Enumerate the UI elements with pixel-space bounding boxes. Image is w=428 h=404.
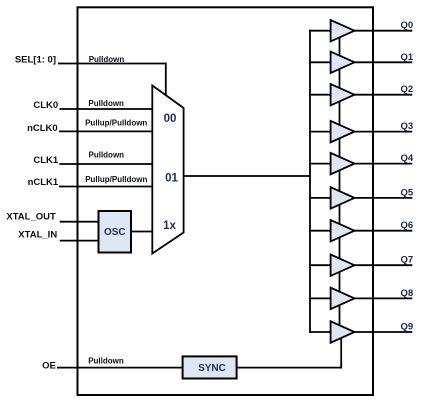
wire SEL horizontal <box>58 63 166 65</box>
wire XTAL_IN <box>60 240 99 242</box>
wire feed from bus to buffer Q2 <box>309 94 332 96</box>
svg-text:Q4: Q4 <box>401 153 414 164</box>
chip outline <box>78 7 374 395</box>
svg-text:Q0: Q0 <box>401 20 414 31</box>
wire riser to Q9 buffer <box>340 338 342 369</box>
buffer triangle Q6 <box>331 220 355 241</box>
buffer triangle Q0 <box>331 20 355 41</box>
wire output Q6 <box>355 230 413 232</box>
wire SEL vertical drop into mux select <box>165 63 167 97</box>
svg-text:SYNC: SYNC <box>198 363 226 374</box>
wire connector buffer Q8 to Q9 <box>339 303 341 327</box>
svg-text:Pullup/Pulldown: Pullup/Pulldown <box>85 118 147 127</box>
wire feed from bus to buffer Q8 <box>309 297 332 299</box>
buffer triangle Q4 <box>331 153 355 174</box>
svg-text:Q2: Q2 <box>401 84 414 95</box>
wire output Q1 <box>355 61 413 63</box>
wire mux output to buffer bus <box>184 175 310 177</box>
wire connector buffer Q3 to Q4 <box>339 137 341 159</box>
wire feed from bus to buffer Q0 <box>309 30 332 32</box>
wire connector buffer Q1 to Q2 <box>339 67 341 89</box>
wire CLK1 <box>59 163 152 165</box>
wire connector buffer Q0 to Q1 <box>339 36 341 58</box>
block SYNC <box>183 356 237 378</box>
buffer triangle Q5 <box>331 187 355 208</box>
svg-text:OSC: OSC <box>104 227 126 238</box>
svg-text:00: 00 <box>164 113 177 125</box>
wire output Q2 <box>355 94 413 96</box>
wire SYNC output <box>237 367 342 369</box>
svg-text:CLK1: CLK1 <box>33 155 59 166</box>
wire OSC output to mux 1x input <box>131 231 153 233</box>
wire CLK0 <box>59 108 152 110</box>
buffer triangle Q1 <box>331 52 355 73</box>
wire output Q4 <box>355 163 413 165</box>
buffer triangle Q9 <box>331 321 355 342</box>
wire feed from bus to buffer Q3 <box>309 131 332 133</box>
svg-text:OE: OE <box>42 360 56 371</box>
svg-text:XTAL_OUT: XTAL_OUT <box>6 212 56 223</box>
wire connector buffer Q7 to Q8 <box>339 270 341 293</box>
svg-text:Pulldown: Pulldown <box>88 357 124 366</box>
svg-text:Q1: Q1 <box>401 52 414 63</box>
svg-text:CLK0: CLK0 <box>33 100 58 111</box>
wire vertical buffer bus <box>309 30 311 333</box>
wire feed from bus to buffer Q4 <box>309 163 332 165</box>
wire nCLK1 <box>59 186 153 188</box>
svg-text:1x: 1x <box>163 220 176 232</box>
wire output Q7 <box>355 264 413 266</box>
wire feed from bus to buffer Q6 <box>309 230 332 232</box>
wire connector buffer Q2 to Q3 <box>339 100 341 127</box>
svg-text:nCLK1: nCLK1 <box>28 177 59 188</box>
svg-text:Q5: Q5 <box>401 187 414 198</box>
svg-text:XTAL_IN: XTAL_IN <box>18 230 57 241</box>
svg-text:Pulldown: Pulldown <box>88 99 124 108</box>
svg-text:SEL[1: 0]: SEL[1: 0] <box>15 55 56 66</box>
wire nCLK0 <box>59 130 153 132</box>
wire XTAL_OUT <box>60 221 99 223</box>
buffer triangle Q3 <box>331 121 355 142</box>
oscillator OSC <box>99 211 132 253</box>
wire output Q8 <box>355 297 413 299</box>
wire output Q3 <box>355 131 413 133</box>
svg-text:Pulldown: Pulldown <box>89 151 125 160</box>
mux U1 <box>152 86 183 254</box>
svg-text:nCLK0: nCLK0 <box>27 123 58 134</box>
wire feed from bus to buffer Q7 <box>309 264 332 266</box>
svg-text:Pullup/Pulldown: Pullup/Pulldown <box>85 175 147 184</box>
wire feed from bus to buffer Q1 <box>309 61 332 63</box>
wire OE to SYNC <box>57 367 183 369</box>
wire output Q5 <box>355 197 413 199</box>
svg-text:Q7: Q7 <box>401 255 414 266</box>
wire feed from bus to buffer Q5 <box>309 197 332 199</box>
svg-text:01: 01 <box>165 173 178 185</box>
wire feed from bus to buffer Q9 <box>309 331 332 333</box>
wire connector buffer Q5 to Q6 <box>339 203 341 226</box>
buffer triangle Q8 <box>331 288 355 309</box>
wire output Q0 <box>355 30 413 32</box>
svg-text:Pulldown: Pulldown <box>89 55 125 64</box>
wire output Q9 <box>355 331 413 333</box>
wire connector buffer Q6 to Q7 <box>339 236 341 261</box>
wire connector buffer Q4 to Q5 <box>339 169 341 193</box>
svg-text:Q8: Q8 <box>401 288 414 299</box>
buffer triangle Q2 <box>331 84 355 105</box>
svg-text:Q6: Q6 <box>401 220 414 231</box>
svg-text:Q9: Q9 <box>401 322 414 333</box>
svg-text:Q3: Q3 <box>401 121 414 132</box>
buffer triangle Q7 <box>331 255 355 276</box>
